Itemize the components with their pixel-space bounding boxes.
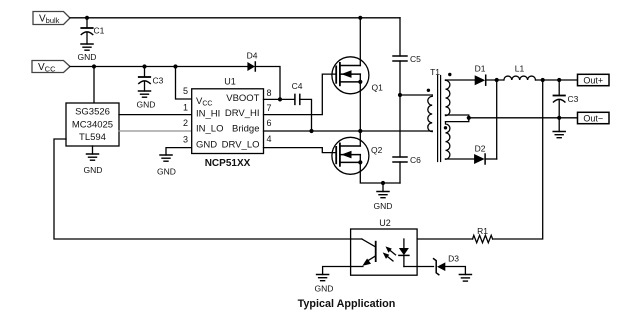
wire DRV_HI pin7 to Q1 gate xyxy=(264,74,337,115)
node C3 output junction xyxy=(557,78,561,82)
node Vcc/pin5 junction xyxy=(173,64,177,68)
capacitor C5 xyxy=(393,18,421,95)
optocoupler U2 xyxy=(351,218,418,275)
wire Q2 source to ground rail xyxy=(360,162,400,183)
svg-text:U2: U2 xyxy=(379,218,391,228)
output tag Out+ xyxy=(578,74,610,85)
wire C4 to bridge xyxy=(300,99,312,131)
svg-text:C6: C6 xyxy=(410,155,421,165)
wire DRV_LO pin4 to Q2 gate xyxy=(264,148,337,153)
input tag Vbulk xyxy=(33,12,70,26)
svg-text:8: 8 xyxy=(267,88,272,98)
svg-text:C3: C3 xyxy=(153,76,164,86)
wire Q1 drain xyxy=(359,18,361,66)
input tag Vcc xyxy=(32,61,70,74)
svg-text:GND: GND xyxy=(157,167,176,177)
svg-text:GND: GND xyxy=(78,52,97,62)
svg-text:C1: C1 xyxy=(94,26,105,36)
wire D4 to VBOOT xyxy=(255,67,280,100)
ground below controller xyxy=(84,146,103,175)
svg-text:Q2: Q2 xyxy=(371,145,383,155)
transformer T1 secondary bottom winding xyxy=(444,122,474,160)
ground bridge xyxy=(374,183,393,211)
svg-text:NCP51XX: NCP51XX xyxy=(205,158,251,169)
svg-text:DRV_HI: DRV_HI xyxy=(225,108,260,119)
svg-text:2: 2 xyxy=(183,118,188,128)
wire Vcc to SG3526 xyxy=(93,67,95,104)
diode D3 zener xyxy=(434,254,460,275)
wire Q2 drain xyxy=(359,131,361,146)
node center tap junction xyxy=(467,116,471,120)
svg-text:DRV_LO: DRV_LO xyxy=(222,139,260,150)
ground pin 3 xyxy=(157,155,176,177)
ground U2 emitter xyxy=(315,275,334,294)
svg-text:GND: GND xyxy=(315,284,334,294)
svg-text:D2: D2 xyxy=(475,144,486,154)
svg-text:GND: GND xyxy=(84,165,103,175)
svg-text:Out−: Out− xyxy=(583,114,603,124)
svg-text:Typical Application: Typical Application xyxy=(298,298,396,310)
svg-text:3: 3 xyxy=(183,135,188,145)
svg-text:5: 5 xyxy=(183,86,188,96)
node bridge midpoint junction xyxy=(358,129,362,133)
output tag Out- xyxy=(578,112,610,123)
node C5/C6/primary junction xyxy=(398,93,402,97)
wire Bridge pin 6 / primary lower lead xyxy=(264,130,433,132)
transformer T1 core xyxy=(430,67,441,162)
wire center tap xyxy=(446,115,469,122)
svg-text:Out+: Out+ xyxy=(583,76,603,86)
op-amp U1 NCP51XX box xyxy=(192,77,264,170)
node C3/Out- junction xyxy=(557,116,561,120)
svg-text:6: 6 xyxy=(267,118,272,128)
svg-text:1: 1 xyxy=(183,103,188,113)
node Vcc/C3 junction xyxy=(142,64,146,68)
svg-text:Vbulk: Vbulk xyxy=(39,14,60,26)
wire Q1 source to bridge xyxy=(359,82,361,131)
svg-text:IN_LO: IN_LO xyxy=(196,124,223,135)
svg-text:R1: R1 xyxy=(477,226,488,236)
node Q1 drain junction xyxy=(358,16,362,20)
svg-text:C3: C3 xyxy=(568,94,579,104)
wire Vcc rail xyxy=(70,66,247,68)
svg-text:GND: GND xyxy=(137,100,156,110)
wire Vcc to U1 pin 5 xyxy=(176,67,192,100)
svg-text:T1: T1 xyxy=(430,67,440,77)
svg-text:Q1: Q1 xyxy=(372,83,384,93)
node D1/L1 junction xyxy=(495,78,499,82)
svg-text:D3: D3 xyxy=(448,254,459,264)
svg-text:TL594: TL594 xyxy=(79,132,106,143)
ground D3 xyxy=(459,275,471,282)
phototransistor in U2 xyxy=(351,239,376,267)
LED in U2 xyxy=(399,239,409,267)
wire top rail Vbulk xyxy=(70,17,400,19)
transformer T1 secondary top winding xyxy=(446,73,475,116)
node C4/bridge junction xyxy=(309,129,313,133)
svg-text:4: 4 xyxy=(267,134,272,144)
svg-text:SG3526: SG3526 xyxy=(75,107,110,118)
svg-text:GND: GND xyxy=(196,139,217,150)
wire feedback Out+ to R1 xyxy=(493,80,543,239)
svg-text:C5: C5 xyxy=(410,54,421,64)
wire D1 cathode to D2 cathode xyxy=(496,80,498,159)
wire VBOOT pin 8 to C4 xyxy=(264,98,295,100)
wire controller to IN_HI xyxy=(119,114,192,116)
ground output xyxy=(553,118,565,138)
svg-text:D4: D4 xyxy=(247,51,258,61)
svg-text:U1: U1 xyxy=(224,77,236,87)
svg-text:VCC: VCC xyxy=(38,62,56,74)
wire U1 GND pin 3 xyxy=(166,148,192,155)
node L1/feedback junction xyxy=(541,78,545,82)
wire controller to IN_LO xyxy=(119,130,192,132)
svg-text:Bridge: Bridge xyxy=(232,123,259,134)
svg-text:L1: L1 xyxy=(515,64,525,74)
svg-text:D1: D1 xyxy=(475,64,486,74)
wire center tap to Out- xyxy=(469,117,578,119)
node Vbulk/C1 junction xyxy=(85,16,89,20)
ground below C3 xyxy=(137,91,156,110)
capacitor C6 xyxy=(393,95,421,183)
svg-text:C4: C4 xyxy=(292,81,303,91)
svg-text:7: 7 xyxy=(267,103,272,113)
controller box SG3526/MC34025/TL594 xyxy=(66,103,119,146)
capacitor C3 (Vcc bypass) xyxy=(139,67,164,92)
wire primary top lead xyxy=(400,94,432,96)
resistor R1 xyxy=(473,226,493,243)
svg-text:GND: GND xyxy=(374,201,393,211)
wire L1 to Out+ xyxy=(536,79,578,81)
wire D3 to ground xyxy=(445,267,465,275)
wire feedback to controller xyxy=(54,139,362,239)
transistor Q2 xyxy=(332,137,383,174)
wire LED cathode to D3 xyxy=(404,266,434,268)
inductor L1 xyxy=(504,64,536,81)
node VBOOT junction xyxy=(278,97,282,101)
light arrows xyxy=(383,246,396,261)
ground below C1 xyxy=(78,44,97,62)
wire R1 to U2 xyxy=(417,238,473,240)
diode D1 xyxy=(475,64,486,86)
wire emitter to ground xyxy=(323,267,351,275)
svg-text:MC34025: MC34025 xyxy=(72,120,113,131)
transistor Q1 xyxy=(332,57,383,94)
capacitor C4 xyxy=(292,81,303,104)
transformer T1 primary winding xyxy=(427,89,433,132)
capacitor C1 xyxy=(81,18,104,44)
node source/ground junction xyxy=(381,181,385,185)
svg-text:IN_HI: IN_HI xyxy=(196,109,220,120)
wire D1 to L1 xyxy=(486,79,504,81)
node Vcc/SG junction xyxy=(92,64,96,68)
capacitor C3 (output) xyxy=(554,80,579,118)
diode D4 xyxy=(247,51,258,72)
svg-text:VBOOT: VBOOT xyxy=(226,93,259,104)
diode D2 xyxy=(474,144,497,165)
